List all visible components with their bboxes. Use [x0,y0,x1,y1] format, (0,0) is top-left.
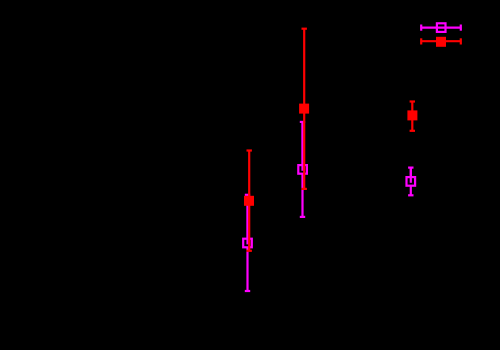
point M3 upper bar stub over marker [410,168,412,183]
point M2 error bar [301,122,303,217]
point M2 open square marker (opaque black interior) [298,165,307,174]
magenta series (drawn first): error bars with open square markers [243,23,461,291]
point R3 error bar [411,102,413,131]
legend sample: magenta line with end ticks through open square [421,27,461,29]
point R2 filled square marker [299,104,309,114]
legend sample: red line with end ticks and filled square [421,40,461,42]
point R1 filled square marker [244,196,254,206]
red series (drawn on top): error bars with filled square markers [244,29,461,251]
point M1 open square marker (opaque black interior) [243,239,252,248]
point M1 error bar [246,195,248,291]
point M3 open square marker (opaque black interior) [407,177,416,186]
point R1 error bar [248,151,250,251]
point R3 filled square marker [407,110,417,120]
point M2 upper bar stub over marker [301,122,303,171]
point M3 error bar [410,168,412,196]
point M1 upper bar stub over marker [246,195,248,245]
point R2 error bar [303,29,305,189]
